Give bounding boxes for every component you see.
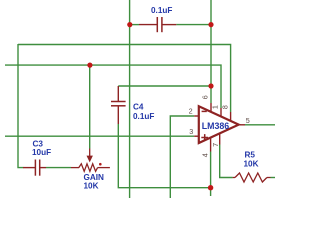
pot terminal dot (99, 163, 102, 166)
junction wiper on input rail (87, 63, 92, 68)
wire left vertical to C3 (18, 44, 23, 168)
op-amp minus input marker (202, 110, 207, 112)
svg-text:6: 6 (200, 95, 209, 99)
wire top rail to pin 8 (18, 45, 231, 113)
svg-text:LM386: LM386 (202, 121, 229, 131)
svg-text:2: 2 (189, 107, 193, 116)
wire C4 top to Vs rail junction (118, 85, 211, 87)
svg-text:10uF: 10uF (32, 148, 51, 157)
svg-text:R5: R5 (245, 150, 256, 159)
svg-text:4: 4 (200, 153, 209, 157)
svg-text:8: 8 (220, 105, 229, 109)
svg-text:C4: C4 (133, 103, 144, 112)
svg-text:5: 5 (246, 116, 250, 125)
wire top-left from junction to bypass cap (131, 24, 140, 26)
pot wiper arrowhead (87, 156, 93, 163)
wire C4 bottom to ground node (118, 124, 210, 188)
wire long vertical x=129.6 full height (129, 0, 131, 198)
capacitor C4 0.1uF (111, 86, 126, 124)
wire input rail y=65 to pin 1 (5, 65, 221, 108)
svg-text:7: 7 (211, 143, 220, 147)
wire wiper drop from rail y=65 (89, 65, 91, 148)
capacitor 0.1uF (top bypass) (139, 17, 176, 32)
wire output pin 5 to edge (245, 124, 275, 126)
wire C3 to GAIN pot (46, 167, 71, 169)
op-amp U1 LM386 pin stubs (194, 103, 245, 152)
junction at top cap left (127, 22, 132, 27)
svg-text:0.1uF: 0.1uF (133, 112, 154, 121)
svg-text:10K: 10K (84, 182, 99, 191)
junction at top cap right on Vs rail (208, 22, 213, 27)
junction C4 wire on Vs rail (208, 83, 213, 88)
wire Vs vertical rail x=211 from top (210, 0, 212, 103)
wire pin 2 with vertical drop x=170 (170, 116, 194, 198)
svg-text:10K: 10K (244, 160, 259, 169)
capacitor C3 10uF (23, 160, 46, 176)
svg-text:1: 1 (211, 105, 220, 109)
svg-text:0.1uF: 0.1uF (151, 6, 172, 15)
wire pin 3 rail y=136 (5, 135, 194, 137)
potentiometer GAIN 10K (71, 149, 110, 172)
wire pin 7 down and right to R5 (220, 145, 233, 178)
op-amp plus input marker (201, 134, 208, 141)
junction ground node pin 4 (208, 185, 213, 190)
wire top-right from bypass cap to Vs rail (176, 24, 211, 26)
wire pin 4 down (210, 152, 212, 197)
op-amp U1 LM386 triangle (199, 106, 239, 143)
svg-text:3: 3 (189, 127, 193, 136)
wire R5 right to edge (271, 177, 276, 179)
resistor R5 10K (233, 173, 271, 182)
